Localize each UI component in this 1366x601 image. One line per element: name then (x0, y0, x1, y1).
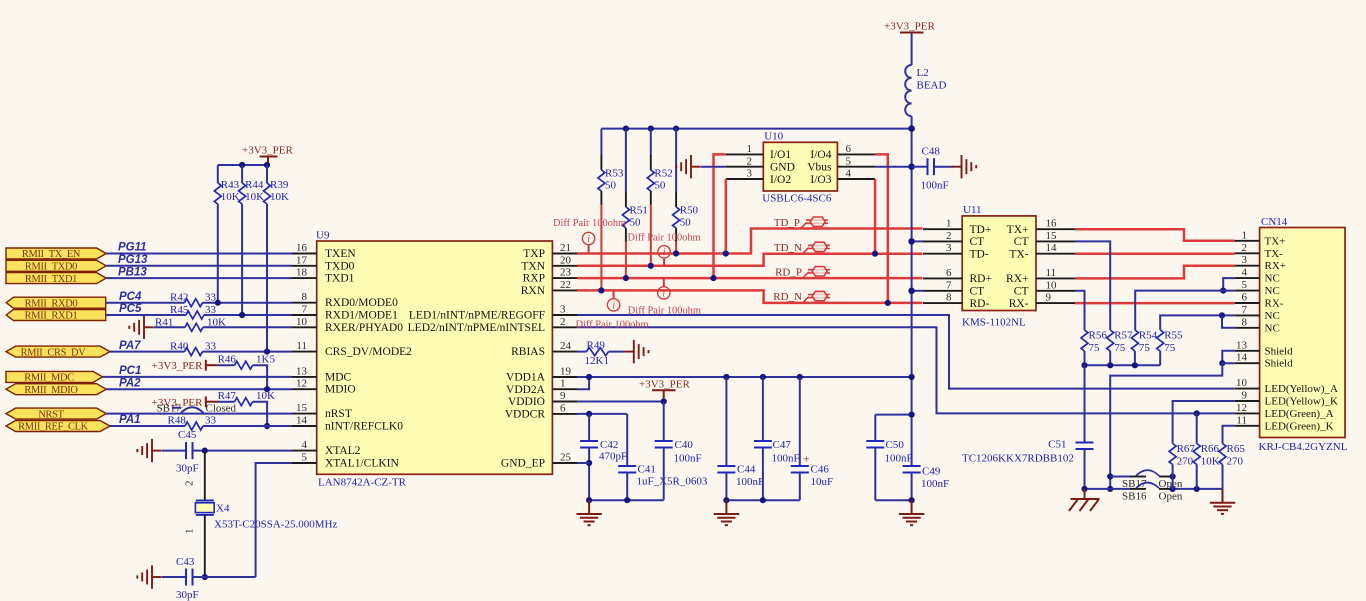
port flag RMII_TXD1 (6, 273, 106, 285)
junction VDDIO C40 (661, 398, 667, 404)
svg-text:TX+: TX+ (1007, 224, 1029, 236)
ground symbol under C49 (899, 500, 924, 525)
svg-text:100nF: 100nF (772, 453, 800, 465)
svg-text:I/O1: I/O1 (770, 149, 791, 161)
junction R39 to CRS_DV row (264, 349, 270, 355)
junction LED(Green)_A row R66 (1194, 410, 1200, 416)
ground wire under C50 C49 (875, 499, 911, 501)
svg-text:RD-: RD- (970, 298, 990, 310)
resistor R46 1K5 with wire to MDIO (218, 354, 276, 390)
power +3V3_PER at R46 (152, 360, 218, 372)
svg-text:1uF_X5R_0603: 1uF_X5R_0603 (637, 476, 708, 488)
svg-text:4: 4 (302, 439, 308, 451)
svg-text:R41: R41 (155, 316, 173, 328)
svg-text:USBLC6-4SC6: USBLC6-4SC6 (762, 193, 832, 205)
junction bus R52 (648, 126, 654, 132)
svg-text:C43: C43 (176, 556, 195, 568)
svg-text:2: 2 (747, 155, 753, 167)
svg-text:TX-: TX- (1009, 249, 1028, 261)
svg-text:PG11: PG11 (118, 242, 147, 254)
wire RMII_TXD1 to U9 pin18 (106, 277, 292, 279)
svg-text:100nF: 100nF (921, 180, 949, 192)
resistor R39 10K pull-up (264, 165, 290, 352)
ground symbol at C48 (952, 155, 976, 178)
svg-text:TD_P: TD_P (774, 217, 800, 229)
junction rail C47 (760, 374, 766, 380)
svg-text:16: 16 (296, 242, 308, 254)
wire RMII_MDC to U9 pin13 (103, 376, 292, 378)
svg-text:RX+: RX+ (1006, 273, 1028, 285)
svg-text:33: 33 (205, 304, 217, 316)
svg-text:R49: R49 (587, 339, 606, 351)
svg-text:XTAL2: XTAL2 (325, 445, 361, 457)
svg-text:R44: R44 (245, 179, 264, 191)
wire U10 I/O3 down to TD_N (874, 179, 877, 254)
junction GND_EP pin25 to C42 column (586, 460, 592, 466)
capacitor C48 100nF (912, 146, 953, 192)
svg-text:R66: R66 (1201, 443, 1220, 455)
wire R65 column CN14 pin11 LED(Green)_K (1223, 426, 1235, 444)
svg-text:10: 10 (1236, 377, 1248, 389)
svg-text:2: 2 (946, 230, 952, 242)
svg-text:RD_P: RD_P (775, 266, 802, 278)
port flag RMII_REF_CLK (6, 421, 110, 433)
svg-text:X4: X4 (216, 503, 230, 515)
svg-text:1: 1 (560, 378, 566, 390)
svg-text:1: 1 (946, 218, 952, 230)
svg-text:VDD1A: VDD1A (506, 372, 546, 384)
transformer U11 KMS-1102NL body (962, 204, 1036, 329)
junction gnd rail C42 (586, 497, 592, 503)
svg-text:MDC: MDC (325, 371, 352, 383)
U9 right pin names (408, 248, 546, 470)
wire TX- U11 pin14 to CN14 pin2 (1075, 252, 1235, 255)
svg-text:R53: R53 (605, 168, 624, 180)
svg-text:10K: 10K (207, 316, 226, 328)
svg-text:R39: R39 (270, 179, 289, 191)
svg-text:RMII_REF_CLK: RMII_REF_CLK (18, 422, 89, 433)
svg-text:NC: NC (1265, 273, 1280, 285)
svg-text:I/O2: I/O2 (770, 174, 791, 186)
ground wire under C42 C41 C40 (589, 499, 664, 501)
ground symbol at C43 (137, 565, 161, 588)
svg-text:9: 9 (1242, 390, 1248, 402)
ground symbol at R41 (129, 316, 153, 339)
wire U10 GND to ground (701, 166, 726, 168)
svg-text:R42: R42 (170, 292, 188, 304)
ground symbol under C44 (714, 500, 739, 525)
svg-text:PA2: PA2 (119, 377, 141, 389)
U9 left pin names (325, 248, 412, 470)
diff pair directive circle on RXN (607, 290, 619, 311)
svg-text:TX-: TX- (1265, 248, 1284, 260)
svg-text:RX+: RX+ (1265, 260, 1286, 272)
resistor R57 75 (1107, 330, 1133, 366)
junction spine C50 tap (909, 412, 915, 418)
resistor R66 10K (1193, 413, 1220, 489)
svg-text:30pF: 30pF (176, 589, 199, 601)
svg-text:RXD1/MODE1: RXD1/MODE1 (325, 310, 398, 322)
inductor L2 BEAD (905, 33, 946, 117)
svg-text:SB16: SB16 (1122, 491, 1147, 503)
svg-text:+: + (803, 454, 810, 466)
svg-text:19: 19 (560, 366, 572, 378)
ground symbol at C45 (137, 439, 161, 462)
svg-text:R48: R48 (168, 415, 187, 427)
wire U11 CT pin2 to spine (912, 240, 923, 242)
U10 pin numbers (747, 143, 852, 180)
IC U10 USBLC6-4SC6 body (762, 131, 837, 205)
U10 pin stubs (726, 154, 875, 179)
svg-text:nRST: nRST (325, 408, 352, 420)
svg-text:50: 50 (630, 217, 642, 229)
capacitor C49 100nF on spine (903, 466, 950, 501)
svg-text:10K: 10K (270, 191, 289, 203)
port flag RMII_CRS_DV (6, 346, 110, 358)
svg-text:TXP: TXP (523, 248, 545, 260)
svg-text:3: 3 (560, 304, 566, 316)
svg-text:I/O4: I/O4 (810, 149, 831, 161)
resistor R51 50 (622, 129, 647, 279)
svg-text:2: 2 (560, 316, 566, 328)
svg-text:PC5: PC5 (119, 303, 142, 315)
resistor R65 270 (1219, 443, 1245, 489)
wire ground to C45 to U9 XTAL2 pin4 (162, 450, 293, 452)
svg-text:RX-: RX- (1009, 298, 1029, 310)
svg-text:270: 270 (1227, 456, 1244, 468)
svg-text:50: 50 (654, 180, 666, 192)
wire ground to R41 to U9 pin10 (154, 326, 293, 328)
svg-text:MDIO: MDIO (325, 384, 356, 396)
svg-text:50: 50 (680, 217, 692, 229)
svg-text:R40: R40 (170, 341, 189, 353)
resistor R52 50 (647, 129, 672, 266)
svg-text:12: 12 (1236, 402, 1247, 414)
wire CN14 NC4 to NC5 tie (1223, 278, 1235, 291)
resistor R45 33 (170, 304, 217, 319)
junction I/O1 to RD_P (710, 275, 716, 281)
svg-text:6: 6 (560, 402, 566, 414)
junction SB16 chassis C51 (1081, 486, 1087, 492)
svg-text:RMII_RXD0: RMII_RXD0 (25, 298, 78, 309)
svg-text:LED(Green)_A: LED(Green)_A (1265, 408, 1334, 420)
chassis ground under C51 (1069, 489, 1100, 511)
svg-text:17: 17 (296, 254, 308, 266)
svg-text:CT: CT (1014, 236, 1029, 248)
svg-text:13: 13 (1236, 339, 1248, 351)
svg-text:14: 14 (1236, 352, 1248, 364)
svg-text:15: 15 (1046, 230, 1058, 242)
wire C50 top tap (875, 414, 911, 416)
wire RX- U11 pin9 to CN14 pin6 (1075, 302, 1235, 305)
junction gnd rail C44 (723, 497, 729, 503)
svg-text:12: 12 (296, 378, 307, 390)
wire shield run to SB17 (1110, 363, 1235, 489)
wire CN14 NC7 tie and to R55 column (1160, 315, 1235, 330)
svg-text:1: 1 (747, 143, 753, 155)
junction shield SB17 row (1107, 473, 1113, 479)
resistor R41 10K (155, 316, 226, 331)
svg-text:U11: U11 (963, 204, 982, 216)
svg-text:RMII_MDIO: RMII_MDIO (24, 385, 78, 396)
svg-text:PC1: PC1 (119, 365, 141, 377)
ground symbol at U10 GND (676, 155, 700, 178)
svg-text:100nF: 100nF (736, 476, 764, 488)
wire VDD2A riser pin1 to rail (577, 377, 589, 389)
svg-text:LED(Yellow)_K: LED(Yellow)_K (1265, 396, 1338, 408)
svg-text:Diff Pair 100ohm: Diff Pair 100ohm (553, 218, 626, 229)
capacitor C41 1uF column (618, 414, 708, 500)
junction gnd rail C41 (624, 497, 630, 503)
junction R43 to RXD0 row (215, 300, 221, 306)
svg-text:U10: U10 (764, 131, 783, 143)
svg-text:R65: R65 (1227, 443, 1246, 455)
svg-text:NC: NC (1265, 285, 1280, 297)
power +3V3_PER above pull-ups (242, 145, 293, 166)
resistor R53 50 (598, 129, 624, 291)
svg-text:NC: NC (1265, 310, 1280, 322)
svg-text:100nF: 100nF (674, 453, 702, 465)
CN14 pin numbers (1236, 229, 1248, 426)
svg-text:+3V3_PER: +3V3_PER (884, 21, 935, 33)
svg-text:L2: L2 (917, 67, 929, 79)
svg-text:10: 10 (296, 316, 308, 328)
wire TX+ U11 pin16 to CN14 pin1 (1075, 229, 1235, 241)
port flag RMII_MDC (6, 371, 103, 383)
svg-text:C42: C42 (600, 439, 618, 451)
solder bridge SB17 Open (1110, 470, 1183, 490)
svg-text:RMII_TX_EN: RMII_TX_EN (22, 249, 81, 260)
svg-text:7: 7 (302, 304, 308, 316)
wire 3V3 header to pull-up tops (218, 164, 268, 166)
svg-text:C44: C44 (737, 464, 756, 476)
svg-text:8: 8 (302, 291, 308, 303)
svg-text:1K5: 1K5 (256, 354, 275, 366)
wire VDDCR pin6 row (577, 413, 627, 415)
net label RD_N with diff glyph (773, 291, 830, 303)
svg-text:Open: Open (1159, 491, 1183, 503)
svg-text:23: 23 (560, 267, 572, 279)
junction R50 to TXP row (673, 250, 679, 256)
svg-text:8: 8 (946, 292, 952, 304)
svg-text:NRST: NRST (38, 409, 64, 420)
junction R52 to TXN row (648, 263, 654, 269)
svg-text:RD+: RD+ (970, 273, 992, 285)
junction NC5 row (1220, 288, 1226, 294)
junction NC7 row (1219, 312, 1225, 318)
svg-text:R45: R45 (170, 304, 189, 316)
svg-text:R57: R57 (1114, 330, 1133, 342)
svg-text:C40: C40 (675, 439, 694, 451)
capacitor C44 100nF column (717, 377, 764, 500)
U9 right pin numbers (560, 242, 572, 464)
wire U11 CT pin7 to spine (912, 290, 923, 292)
svg-text:R56: R56 (1089, 330, 1108, 342)
svg-text:11: 11 (296, 340, 307, 352)
svg-text:21: 21 (560, 242, 571, 254)
resistor R67 270 (1169, 443, 1195, 489)
svg-text:18: 18 (296, 267, 308, 279)
svg-text:75: 75 (1164, 342, 1176, 354)
svg-text:NC: NC (1265, 322, 1280, 334)
svg-text:9: 9 (560, 390, 566, 402)
power +3V3_PER at R47 (152, 396, 218, 409)
junction VDD2A riser (586, 374, 592, 380)
junction rail spine (909, 374, 915, 380)
svg-text:270: 270 (1177, 456, 1194, 468)
svg-text:RMII_RXD1: RMII_RXD1 (25, 311, 78, 322)
svg-text:VDDIO: VDDIO (508, 396, 545, 408)
earth ground under R65 (1210, 489, 1235, 514)
svg-text:7: 7 (1242, 304, 1248, 316)
wire U10 I/O4 down to RD_N (875, 154, 888, 303)
wire GND_EP pin25 (577, 462, 589, 464)
svg-text:3: 3 (747, 168, 753, 180)
junction rail C46 (797, 374, 803, 380)
svg-text:C49: C49 (922, 466, 941, 478)
U9 right pin stubs (552, 254, 577, 464)
svg-text:Diff Pair 100ohm: Diff Pair 100ohm (628, 233, 701, 244)
svg-text:X53T-C20SSA-25.000MHz: X53T-C20SSA-25.000MHz (214, 519, 337, 531)
ground wire under C44 C47 C46 (726, 499, 799, 501)
wire ground to C43 to XTAL1 riser (162, 576, 256, 578)
svg-text:Shield: Shield (1265, 358, 1294, 370)
svg-text:75: 75 (1139, 342, 1151, 354)
diff pair directive circle on TXN (658, 246, 670, 266)
junction R44 to RXD1 row (239, 312, 245, 318)
junction bus R50 (673, 126, 679, 132)
wire LED1 row from U9 pin3 to CN14 LED(Yellow)_A (577, 315, 1234, 389)
wire RXN from U9 pin22 with jog down to RD_N (577, 290, 922, 303)
resistor R40 33 (170, 341, 217, 356)
svg-text:Vbus: Vbus (807, 162, 832, 174)
svg-text:U9: U9 (316, 230, 330, 242)
svg-text:33: 33 (205, 341, 217, 353)
wire TXN from U9 pin20 with jog up to TD_N (577, 254, 922, 266)
svg-text:5: 5 (1242, 279, 1248, 291)
svg-text:Closed: Closed (206, 403, 237, 415)
IC U9 LAN8742A-CZ-TR body (316, 230, 552, 489)
U11 pin numbers (946, 218, 1057, 304)
wire VDDIO pin9 to +3V3 tap (577, 401, 663, 403)
resistor R54 75 (1131, 330, 1157, 366)
junction SB16 R66 column (1194, 486, 1200, 492)
junction VDDCR C42 column (586, 411, 592, 417)
svg-text:5: 5 (302, 452, 308, 464)
svg-text:RMII_CRS_DV: RMII_CRS_DV (21, 347, 87, 358)
diff pair directive circle on RXP (658, 278, 670, 299)
svg-text:VDD2A: VDD2A (506, 384, 546, 396)
VDD rail from U9 pin19 (577, 376, 912, 378)
svg-text:11: 11 (1046, 267, 1057, 279)
junction I/O2 to TXP (723, 250, 729, 256)
svg-text:10K: 10K (1201, 456, 1220, 468)
resistor R50 50 (673, 129, 699, 254)
port name labels PG11 PG13 PB13 PC4 PC5 PA7 PC1 PA2 PA1 (118, 242, 148, 427)
U9 left pin numbers (296, 242, 308, 464)
svg-text:PA7: PA7 (119, 340, 141, 352)
U11 pin stubs (923, 229, 1075, 303)
svg-text:PG13: PG13 (118, 254, 148, 266)
net label TD_P with diff glyph (774, 217, 828, 229)
junction SB16 R67 column (1170, 486, 1176, 492)
resistor R56 75 (1081, 330, 1107, 366)
resistor R43 10K pull-up (214, 165, 240, 303)
svg-text:PB13: PB13 (118, 266, 147, 278)
CN14 pin stubs (1235, 241, 1260, 426)
svg-text:1: 1 (1242, 229, 1248, 241)
svg-text:C47: C47 (773, 439, 792, 451)
wire RMII_RXD1 to R45 to U9 pin7 (106, 314, 292, 316)
junction XTAL2 to crystal branch (202, 448, 208, 454)
svg-text:RXER/PHYAD0: RXER/PHYAD0 (325, 322, 403, 334)
svg-text:10: 10 (1046, 279, 1058, 291)
svg-text:10K: 10K (245, 191, 264, 203)
wire RMII_TXD0 to U9 pin17 (106, 265, 292, 267)
junction rail C44 (723, 374, 729, 380)
termination bottom rail (1085, 364, 1161, 366)
svg-text:100nF: 100nF (921, 478, 949, 490)
junction gnd rail C49 (909, 497, 915, 503)
svg-text:15: 15 (296, 402, 308, 414)
svg-text:TC1206KKX7RDBB102: TC1206KKX7RDBB102 (962, 453, 1074, 465)
net label TD_N with diff glyph (774, 242, 830, 254)
resistor R47 10K with wire to nINT/REFCLK0 (218, 390, 275, 426)
wire U9 RBIAS pin24 to R49 (577, 351, 586, 353)
svg-text:KRJ-CB4.2GYZNL: KRJ-CB4.2GYZNL (1259, 441, 1348, 453)
svg-text:R55: R55 (1164, 330, 1183, 342)
capacitor C46 10uF polarized column (791, 377, 833, 500)
svg-text:10K: 10K (221, 191, 240, 203)
svg-text:4: 4 (1242, 267, 1248, 279)
svg-text:Diff Pair 100ohm: Diff Pair 100ohm (576, 319, 649, 330)
svg-text:22: 22 (560, 279, 571, 291)
svg-text:9: 9 (1046, 292, 1052, 304)
wire TXP from U9 pin21 with jog up to TD_P (577, 229, 922, 254)
junction I/O3 to TD_N (872, 251, 878, 257)
svg-text:16: 16 (1046, 218, 1058, 230)
svg-text:KMS-1102NL: KMS-1102NL (962, 317, 1026, 329)
svg-text:PC4: PC4 (119, 291, 142, 303)
capacitor C43 30pF (176, 556, 199, 601)
junction spine CT pin2 (908, 238, 915, 245)
junction gnd rail C47 (760, 497, 766, 503)
svg-text:CT: CT (970, 236, 985, 248)
svg-text:CT: CT (1014, 286, 1029, 298)
svg-text:R50: R50 (680, 205, 699, 217)
svg-text:1: 1 (184, 529, 196, 535)
svg-text:TXN: TXN (521, 260, 545, 272)
wire LED2 row from U9 pin2 to CN14 LED(Green)_A (577, 327, 1234, 413)
wire U11 CT pin15 down to R57 (1075, 241, 1110, 330)
port flag RMII_TXD0 (6, 260, 106, 272)
svg-text:Shield: Shield (1265, 345, 1294, 357)
svg-text:75: 75 (1089, 342, 1101, 354)
wire NC5 row to R54 column (1135, 291, 1235, 330)
svg-text:2: 2 (184, 481, 196, 487)
svg-text:R51: R51 (630, 205, 648, 217)
svg-text:+3V3_PER: +3V3_PER (152, 360, 203, 372)
svg-text:2: 2 (1242, 242, 1248, 254)
wire NC7 to NC8 tie (1222, 315, 1235, 327)
svg-text:LED(Green)_K: LED(Green)_K (1265, 420, 1334, 432)
junction crystal bottom to C43 row (202, 574, 208, 580)
wire RXP from U9 pin23 straight RD_P (577, 277, 922, 280)
svg-text:100nF: 100nF (885, 453, 913, 465)
junction R39 top (264, 162, 270, 168)
capacitor C47 100nF column (754, 377, 800, 500)
capacitor C45 30pF (176, 429, 199, 475)
